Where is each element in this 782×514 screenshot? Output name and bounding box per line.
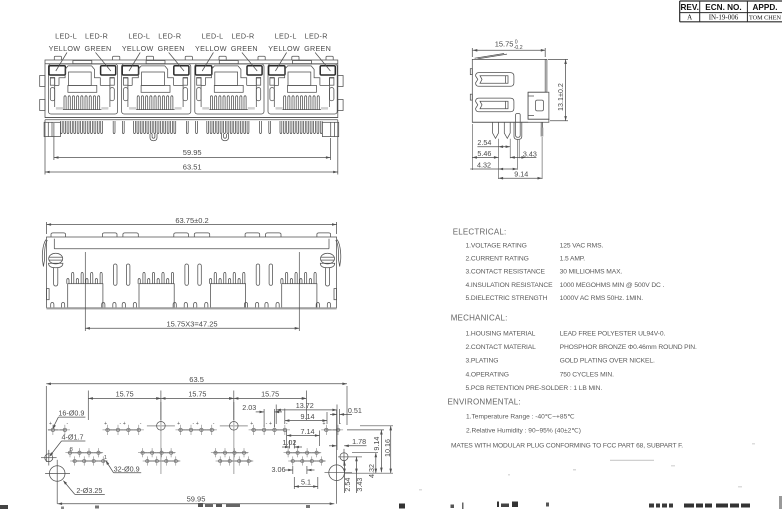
dim 0.51	[339, 409, 341, 424]
svg-text:+: +	[177, 421, 180, 427]
svg-text:2-Ø3.25: 2-Ø3.25	[76, 486, 102, 495]
mounting holes 2-Ø3.25	[49, 466, 65, 482]
svg-text:125 VAC RMS.: 125 VAC RMS.	[560, 242, 604, 249]
svg-text:9.14: 9.14	[301, 412, 315, 421]
dim 1.02	[289, 440, 291, 449]
left edge bumps	[470, 69, 472, 75]
vertical dim 10.16 (right)	[360, 425, 393, 427]
svg-text:ELECTRICAL:: ELECTRICAL:	[453, 228, 507, 237]
svg-text:1.VOLTAGE RATING: 1.VOLTAGE RATING	[466, 242, 527, 249]
svg-text:5.1: 5.1	[301, 477, 311, 486]
rear contact clusters	[68, 284, 103, 308]
svg-text:LED-R: LED-R	[158, 32, 181, 41]
rear boundary slots	[114, 264, 118, 285]
svg-text:PHOSPHOR BRONZE Φ0.46mm ROUND: PHOSPHOR BRONZE Φ0.46mm ROUND PIN.	[560, 344, 697, 351]
PCB latch block (right)	[528, 92, 549, 119]
svg-text:9.14: 9.14	[372, 437, 381, 451]
svg-text:+: +	[196, 421, 199, 427]
dimension 15.75X3=47.25	[84, 252, 86, 331]
dim 9.14 (pcb top)	[284, 409, 286, 425]
svg-text:4.32: 4.32	[367, 464, 376, 478]
svg-text:15.75: 15.75	[116, 389, 134, 398]
4-Ø1.7 holes	[147, 425, 175, 427]
RJ45 port 1 front face	[48, 61, 117, 115]
side view pins	[493, 122, 499, 138]
rear view of connector	[47, 237, 337, 308]
svg-text:2.03: 2.03	[242, 403, 256, 412]
svg-text:63.51: 63.51	[183, 163, 202, 172]
rear retention posts (left and right)	[49, 253, 63, 264]
svg-text:ENVIRONMENTAL:: ENVIRONMENTAL:	[448, 398, 521, 407]
svg-text:GREEN: GREEN	[304, 44, 331, 53]
svg-text:10.16: 10.16	[383, 439, 392, 457]
svg-text:2.CURRENT RATING: 2.CURRENT RATING	[466, 255, 529, 262]
svg-text:32-Ø0.9: 32-Ø0.9	[114, 464, 140, 473]
svg-text:LED-L: LED-L	[128, 32, 150, 41]
svg-text:15.75: 15.75	[188, 389, 206, 398]
svg-text:1: 1	[104, 455, 107, 461]
svg-text:+: +	[123, 421, 126, 427]
svg-text:MECHANICAL:: MECHANICAL:	[451, 313, 508, 322]
svg-text:LED-L: LED-L	[202, 32, 224, 41]
svg-text:+: +	[104, 421, 107, 427]
dim 2.03	[263, 409, 265, 427]
svg-text:0.51: 0.51	[348, 406, 362, 415]
svg-text:1000 MEGOHMS MIN @ 500V DC .: 1000 MEGOHMS MIN @ 500V DC .	[560, 282, 665, 289]
svg-text:5.46: 5.46	[477, 149, 491, 158]
svg-text:LED-L: LED-L	[55, 32, 77, 41]
dim 7.14	[286, 431, 288, 447]
svg-text:A: A	[687, 14, 692, 22]
svg-text:YELLOW: YELLOW	[122, 44, 154, 53]
svg-text:16-Ø0.9: 16-Ø0.9	[58, 409, 84, 418]
svg-text:1.Temperature Range : -40℃~+85: 1.Temperature Range : -40℃~+85℃	[466, 413, 575, 420]
dim 63.5	[45, 386, 47, 462]
svg-text:13.72: 13.72	[296, 401, 314, 410]
vertical dim 9.14 (right)	[347, 429, 384, 431]
pin organizer strip under front view	[45, 119, 338, 121]
svg-text:3.CONTACT RESISTANCE: 3.CONTACT RESISTANCE	[466, 269, 546, 276]
svg-text:YELLOW: YELLOW	[268, 44, 300, 53]
rear bottom feet	[51, 303, 54, 308]
RJ45 port 3 front face	[195, 61, 264, 115]
svg-text:30 MILLIOHMS MAX.: 30 MILLIOHMS MAX.	[560, 269, 623, 276]
svg-text:15.75X3=47.25: 15.75X3=47.25	[166, 319, 217, 328]
front view: quad RJ45 connector body	[45, 60, 338, 118]
svg-text:+: +	[250, 421, 253, 427]
svg-text:4.INSULATION RESISTANCE: 4.INSULATION RESISTANCE	[466, 282, 554, 289]
left mounting post	[44, 122, 60, 136]
LED pin holes (16-Ø0.9)	[51, 428, 54, 431]
svg-text:IN-19-006: IN-19-006	[709, 14, 739, 22]
dimension 15.75 0/-0.2 (side top)	[471, 48, 473, 57]
rear wall nubs	[47, 289, 50, 300]
svg-text:15.75: 15.75	[495, 39, 514, 48]
dimension 13.1±0.2 (side right)	[548, 58, 568, 60]
svg-text:8: 8	[70, 447, 73, 453]
svg-text:TOM CHEN: TOM CHEN	[749, 14, 782, 21]
svg-text:LED-R: LED-R	[305, 32, 328, 41]
svg-text:15.75: 15.75	[261, 389, 279, 398]
svg-text:LED-L: LED-L	[275, 32, 297, 41]
svg-text:4-Ø1.7: 4-Ø1.7	[62, 433, 84, 442]
svg-text:4.32: 4.32	[477, 161, 491, 170]
svg-text:13.1±0.2: 13.1±0.2	[556, 83, 565, 111]
svg-text:5.PCB RETENTION PRE-SOLDER : 1: 5.PCB RETENTION PRE-SOLDER : 1 LB MIN.	[466, 385, 603, 392]
svg-text:2.CONTACT MATERIAL: 2.CONTACT MATERIAL	[466, 344, 537, 351]
svg-text:-0.2: -0.2	[514, 45, 523, 51]
svg-text:3.PLATING: 3.PLATING	[466, 358, 499, 365]
svg-text:LED-R: LED-R	[85, 32, 108, 41]
svg-text:63.5: 63.5	[189, 375, 204, 384]
svg-text:LED-R: LED-R	[231, 32, 254, 41]
rear top tabs	[51, 233, 66, 237]
svg-text:GREEN: GREEN	[84, 44, 111, 53]
vertical dim 2.54	[344, 461, 346, 493]
svg-text:ECN. NO.: ECN. NO.	[705, 3, 741, 12]
svg-text:63.75±0.2: 63.75±0.2	[175, 216, 208, 225]
side body outline	[472, 59, 549, 122]
dimension 63.75±0.2	[46, 222, 48, 234]
svg-text:1.78: 1.78	[352, 437, 366, 446]
svg-text:1.HOUSING MATERIAL: 1.HOUSING MATERIAL	[466, 331, 536, 338]
dimension 63.51 (front view)	[44, 120, 46, 175]
dims 15.75 x3	[87, 391, 89, 421]
svg-text:3.06: 3.06	[272, 465, 286, 474]
dim 13.72	[275, 405, 277, 425]
rear top band	[54, 248, 329, 250]
svg-text:GREEN: GREEN	[231, 44, 258, 53]
svg-text:9.14: 9.14	[514, 170, 528, 179]
dim 59.95 (pcb)	[58, 503, 335, 505]
svg-text:1.5 AMP.: 1.5 AMP.	[560, 255, 586, 262]
svg-text:1.02: 1.02	[282, 438, 296, 447]
svg-text:+: +	[323, 421, 326, 427]
svg-text:3.43: 3.43	[355, 478, 364, 492]
svg-text:2.54: 2.54	[343, 478, 352, 492]
svg-text:YELLOW: YELLOW	[195, 44, 227, 53]
svg-text:APPD.: APPD.	[752, 3, 777, 12]
svg-text:YELLOW: YELLOW	[49, 44, 81, 53]
top chamfer hatches	[475, 54, 505, 59]
svg-text:4.OPERATING: 4.OPERATING	[466, 371, 509, 378]
construction lines (light gray)	[48, 429, 67, 431]
svg-text:59.95: 59.95	[187, 494, 206, 503]
svg-text:GOLD PLATING OVER NICKEL.: GOLD PLATING OVER NICKEL.	[560, 358, 655, 365]
svg-text:2.54: 2.54	[477, 138, 491, 147]
svg-text:LEAD FREE POLYESTER UL94V-0.: LEAD FREE POLYESTER UL94V-0.	[560, 331, 666, 338]
left EMI finger	[42, 240, 47, 267]
svg-text:7.14: 7.14	[301, 427, 315, 436]
vertical dim 3.43	[356, 457, 358, 493]
hanging pegs	[150, 134, 157, 141]
shield tabs on left and right edges	[40, 76, 45, 87]
svg-text:REV.: REV.	[681, 3, 699, 12]
vertical dim 4.32	[352, 452, 378, 454]
svg-text:+: +	[49, 421, 52, 427]
contact holes 32-Ø0.9	[68, 451, 71, 454]
dimension 59.95 (front view)	[53, 123, 55, 160]
svg-text:GREEN: GREEN	[158, 44, 185, 53]
side bottom dimensions extension lines	[498, 139, 500, 179]
right mounting post	[322, 122, 338, 136]
faint artifacts bottom	[573, 469, 576, 471]
dim 5.1	[293, 477, 295, 489]
svg-text:5.DIELECTRIC STRENGTH: 5.DIELECTRIC STRENGTH	[466, 295, 548, 302]
revision table	[680, 0, 782, 2]
dim 1.78	[329, 445, 337, 447]
svg-text:+: +	[269, 421, 272, 427]
svg-text:750 CYCLES MIN.: 750 CYCLES MIN.	[560, 371, 614, 378]
rear bottom edge	[47, 307, 337, 309]
shield tabs on body top edge	[54, 56, 61, 60]
LED light pipes (side)	[476, 73, 514, 87]
right EMI finger	[336, 240, 341, 267]
solder tail comb	[60, 121, 62, 134]
RJ45 port 2 front face	[122, 61, 191, 115]
svg-text:MATES WITH MODULAR PLUG CONFOR: MATES WITH MODULAR PLUG CONFORMING TO FC…	[451, 443, 683, 450]
RJ45 port 4 front face	[268, 61, 337, 115]
svg-text:1000V AC RMS 50Hz. 1MIN.: 1000V AC RMS 50Hz. 1MIN.	[560, 295, 644, 302]
svg-text:59.95: 59.95	[183, 148, 202, 157]
svg-text:2.Relative Humidity : 90~95% (: 2.Relative Humidity : 90~95% (40±2℃)	[466, 427, 581, 434]
